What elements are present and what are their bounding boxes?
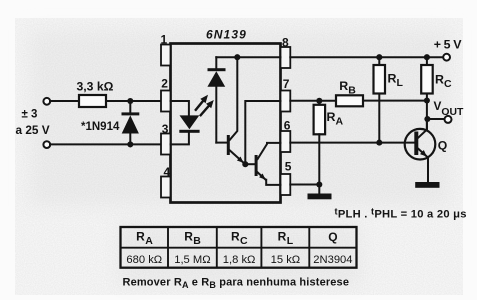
- transistor T2: [255, 143, 281, 185]
- pin 8 box: [281, 47, 291, 68]
- LED D2: [179, 115, 199, 132]
- wire pin6 to Q base: [290, 142, 414, 144]
- svg-text:R: R: [278, 229, 287, 243]
- resistor RA: [314, 101, 326, 194]
- junction T1 emitter / T2 base: [242, 161, 248, 167]
- svg-text:8: 8: [282, 35, 289, 49]
- svg-text:15 kΩ: 15 kΩ: [271, 254, 301, 266]
- transistor Q 2N3904: [405, 119, 436, 182]
- junction VOUT: [424, 116, 430, 122]
- svg-text:680 kΩ: 680 kΩ: [126, 254, 162, 266]
- svg-text:2N3904: 2N3904: [313, 254, 352, 266]
- wire input bottom: [50, 143, 161, 145]
- top rail external to +5V: [290, 56, 443, 58]
- ground bar RA: [308, 194, 332, 200]
- pin 4 box: [161, 177, 171, 198]
- terminal input top: [43, 98, 50, 105]
- svg-text:Remover RA e RB para nenhuma h: Remover RA e RB para nenhuma histerese: [123, 277, 350, 291]
- table: [121, 227, 357, 268]
- svg-text:a 25 V: a 25 V: [16, 123, 50, 137]
- wire pin7 external: [290, 100, 336, 102]
- svg-text:R: R: [184, 229, 193, 243]
- pin 5 box: [281, 174, 291, 195]
- svg-text:*1N914: *1N914: [81, 121, 120, 133]
- wire input top: [50, 100, 79, 102]
- light arrow 1: [196, 95, 208, 110]
- svg-text:2: 2: [161, 77, 168, 91]
- svg-text:5: 5: [285, 160, 292, 174]
- terminal +5V: [443, 54, 450, 61]
- junction RL bottom: [376, 140, 382, 146]
- IC body 6N139: [171, 44, 281, 203]
- resistor 3,3 kΩ: [79, 95, 106, 107]
- internal top rail: [216, 56, 280, 58]
- svg-text:Q: Q: [438, 138, 447, 152]
- pin 7 box: [281, 91, 291, 112]
- svg-text:tPLH . tPHL = 10 a 20 μs: tPLH . tPHL = 10 a 20 μs: [335, 207, 467, 221]
- resistor RC: [421, 57, 433, 100]
- junction input bottom: [127, 141, 133, 147]
- wire RC to collector: [426, 101, 428, 130]
- pin 1 box: [161, 45, 171, 66]
- pin 3 box: [161, 134, 171, 155]
- svg-text:Q: Q: [328, 230, 337, 244]
- terminal VOUT: [445, 116, 452, 123]
- diode D1 1N914: [122, 101, 140, 144]
- terminal input bottom: [43, 141, 50, 148]
- junction RA top: [316, 98, 322, 104]
- wire pin7 internal: [245, 101, 280, 164]
- svg-text:6: 6: [284, 119, 291, 133]
- wire pin5 external: [290, 184, 319, 186]
- light arrow 2: [201, 100, 214, 115]
- svg-text:7: 7: [283, 77, 290, 91]
- svg-text:4: 4: [164, 165, 171, 179]
- pin 6 box: [281, 131, 291, 152]
- wire LED to pin3: [171, 132, 189, 144]
- svg-text:+ 5 V: + 5 V: [434, 38, 462, 52]
- svg-text:B: B: [193, 235, 201, 247]
- junction RA pin5: [316, 181, 322, 187]
- svg-text:6N139: 6N139: [206, 28, 247, 42]
- junction RC bottom: [424, 97, 430, 103]
- svg-text:C: C: [240, 235, 248, 247]
- resistor RB: [336, 95, 363, 106]
- svg-text:R: R: [231, 229, 240, 243]
- wire to T2 base: [245, 163, 255, 165]
- svg-text:± 3: ± 3: [22, 109, 38, 121]
- svg-text:A: A: [145, 235, 153, 247]
- pin 2 box: [161, 91, 171, 112]
- svg-text:1,8 kΩ: 1,8 kΩ: [223, 254, 256, 266]
- wire photodiode to T1 base: [216, 142, 227, 144]
- svg-text:L: L: [287, 235, 294, 247]
- svg-text:3: 3: [162, 122, 169, 136]
- svg-text:1: 1: [161, 32, 168, 46]
- wire resistor to pin2: [106, 100, 161, 102]
- transistor T1: [227, 57, 244, 163]
- wire VOUT: [427, 118, 444, 120]
- junction input top: [127, 98, 133, 104]
- junction RC top: [424, 54, 430, 60]
- resistor RL: [374, 57, 386, 142]
- svg-text:R: R: [136, 229, 145, 243]
- wire pin2 to LED: [171, 101, 189, 115]
- svg-text:1,5 MΩ: 1,5 MΩ: [174, 254, 210, 266]
- junction RL top: [376, 54, 382, 60]
- svg-text:3,3 kΩ: 3,3 kΩ: [77, 80, 114, 94]
- wire RB to RC bottom: [363, 100, 427, 102]
- ground bar Q: [415, 182, 439, 188]
- photodiode: [207, 57, 225, 142]
- junction T1 collector rail: [234, 54, 240, 60]
